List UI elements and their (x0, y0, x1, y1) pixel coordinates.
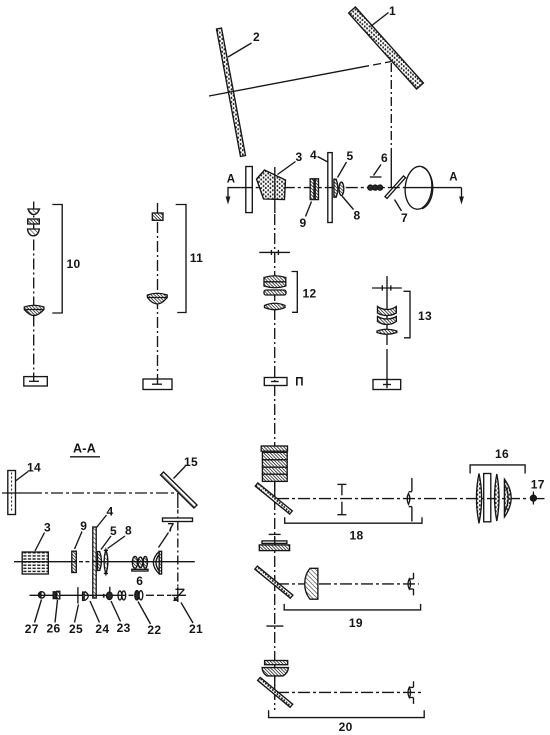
bracket 20 (269, 710, 425, 717)
axis row 20 (277, 691, 422, 693)
lens 5 A-A (98, 552, 102, 571)
plate 4 (328, 153, 332, 223)
beamsplitter 19 (255, 566, 293, 598)
svg-text:7: 7 (168, 521, 175, 535)
filter 26 (53, 591, 60, 599)
beamsplitter 18 (255, 483, 292, 514)
label 22 (138, 602, 161, 638)
stop 23a (103, 594, 105, 598)
label 25 (69, 605, 83, 637)
svg-text:4: 4 (310, 148, 317, 162)
svg-text:17: 17 (531, 478, 545, 492)
lens 24 (83, 592, 89, 601)
svg-text:26: 26 (47, 622, 61, 636)
axis of assembly 11 (157, 203, 159, 384)
svg-text:14: 14 (27, 461, 41, 475)
main horizontal optical axis (241, 187, 462, 189)
label 9 A-A (75, 519, 88, 549)
bracket 10 (52, 205, 62, 314)
filter 9 (310, 179, 318, 200)
reticle 25 (77, 587, 79, 603)
label П (295, 377, 304, 389)
lens 8 A-A (104, 550, 108, 575)
label 18 (350, 529, 364, 543)
label 6 A-A (136, 574, 143, 588)
svg-text:6: 6 (136, 574, 143, 588)
label 27 (25, 600, 42, 637)
label 13 (418, 309, 432, 323)
svg-text:6: 6 (381, 151, 388, 165)
svg-text:5: 5 (110, 524, 117, 538)
bracket 16 (470, 465, 525, 474)
label 11 (190, 251, 203, 265)
label 4 (310, 148, 328, 162)
plate 4 A-A (93, 527, 96, 598)
stage 10 (24, 377, 48, 386)
lens 16d (505, 479, 512, 517)
label 2 (228, 30, 260, 57)
label 3 (278, 150, 303, 175)
svg-text:2: 2 (253, 30, 260, 44)
axis A-A second horizontal (14, 561, 195, 563)
bracket 12 (292, 272, 298, 313)
lens 10a (28, 209, 40, 215)
protective plate left (246, 167, 253, 213)
svg-text:3: 3 (44, 521, 51, 535)
svg-text:24: 24 (95, 622, 109, 636)
beamsplitter 20 (258, 677, 293, 707)
vertical axis from mirror 15 (177, 493, 179, 602)
mirror 7 (385, 176, 406, 199)
lamp bulb (403, 165, 433, 210)
eyepiece lens row 18 (407, 478, 412, 522)
exit pupil 17 (530, 492, 536, 505)
diaphragm mark above group 12 (259, 250, 290, 255)
diaphragm 27 (38, 592, 44, 598)
lens stack 20 (262, 661, 288, 676)
lens 7 A-A (153, 551, 161, 574)
svg-text:22: 22 (147, 623, 161, 637)
svg-text:7: 7 (401, 211, 408, 225)
bracket 18 (285, 517, 422, 523)
aperture stop row 18 (337, 484, 346, 514)
svg-text:4: 4 (107, 505, 114, 519)
lens 5 (334, 179, 338, 197)
mount 16b (484, 474, 491, 522)
lamp filament 6 (368, 185, 383, 190)
label A-A (70, 442, 100, 457)
axis row 18 (277, 498, 545, 500)
label 6 (370, 151, 388, 177)
svg-text:13: 13 (418, 309, 432, 323)
label 10 (67, 257, 81, 271)
lens 12a (264, 276, 286, 288)
svg-text:10: 10 (67, 257, 81, 271)
vertical axis mirror 1 to mirror 7 (390, 63, 392, 188)
label 16 (495, 447, 509, 461)
lens pair 23b (118, 591, 126, 600)
doublet 10d (24, 305, 44, 315)
svg-text:A-A: A-A (73, 442, 96, 456)
svg-text:11: 11 (190, 251, 203, 265)
eyepiece lens row 20 (408, 681, 414, 704)
label 14 (16, 461, 41, 482)
mirror 21 (174, 589, 185, 601)
svg-text:16: 16 (495, 447, 509, 461)
lens 13b (377, 329, 397, 334)
svg-text:П: П (295, 377, 304, 389)
mirror plate on vertical axis (163, 518, 193, 522)
svg-text:27: 27 (25, 622, 39, 636)
label 8 A-A (108, 524, 133, 549)
svg-text:5: 5 (347, 149, 354, 163)
prism 3 (257, 167, 286, 213)
filter 11a (152, 213, 163, 220)
svg-text:19: 19 (349, 616, 363, 630)
mirror 2 (217, 28, 246, 157)
lens 16a (476, 474, 481, 524)
axis A-A horizontal (2, 492, 176, 494)
lens 23 (107, 587, 113, 600)
label 17 (531, 478, 545, 492)
filter 9 A-A (72, 551, 77, 572)
label 7 A-A (159, 521, 175, 548)
label 9 (300, 202, 312, 231)
field stop box (264, 378, 287, 386)
axis row 19 (277, 583, 419, 585)
axis of assembly 13 (386, 276, 388, 385)
stage 13 (373, 380, 401, 390)
label 12 (303, 287, 317, 301)
bracket 13 (404, 291, 411, 338)
label 8 (342, 196, 361, 223)
label 7 (395, 200, 409, 226)
lens 16c (495, 474, 500, 521)
central vertical optical axis (274, 214, 276, 710)
label 3 A-A (35, 521, 51, 552)
svg-text:12: 12 (303, 287, 317, 301)
svg-text:8: 8 (125, 524, 132, 538)
lens 12c (265, 303, 286, 309)
lens 22 (135, 591, 143, 600)
plate 14 (8, 471, 16, 515)
svg-text:A: A (227, 174, 236, 186)
svg-text:18: 18 (350, 529, 364, 543)
label 24 (90, 601, 109, 636)
tick on vertical axis below BS 19 (266, 625, 283, 627)
lens 19 (305, 568, 318, 599)
svg-text:23: 23 (117, 621, 131, 635)
label 23 (111, 601, 131, 635)
lens 12b (264, 290, 286, 295)
section marker A left (226, 174, 241, 205)
bracket 11 (176, 205, 186, 313)
lower A-A optical axis (30, 594, 187, 596)
label 5 A-A (101, 524, 117, 550)
lens 13a (378, 307, 397, 325)
label 21 (181, 603, 203, 637)
label 26 (47, 600, 61, 636)
svg-text:25: 25 (69, 622, 83, 636)
label 15 (174, 455, 198, 479)
relay lens stack (261, 446, 287, 481)
bracket 19 (284, 604, 420, 610)
label 4 A-A (97, 505, 114, 528)
label 5 (338, 149, 354, 178)
field lens plate (259, 541, 289, 551)
svg-text:1: 1 (389, 4, 396, 18)
label 19 (349, 616, 363, 630)
svg-text:15: 15 (184, 455, 198, 469)
lens 10c (28, 229, 40, 236)
mirror 15 (161, 472, 198, 508)
doublet 11b (147, 293, 167, 304)
label 1 (371, 4, 397, 27)
lens 10b (28, 219, 40, 224)
diaphragm mark above group 13 (372, 285, 402, 290)
condenser 6 A-A (132, 556, 148, 571)
mirror 1 (349, 7, 424, 89)
svg-text:20: 20 (339, 720, 353, 734)
svg-text:9: 9 (80, 519, 87, 533)
svg-text:8: 8 (354, 209, 361, 223)
svg-text:3: 3 (296, 150, 303, 164)
eyepiece lens row 19 (408, 573, 414, 596)
label 20 (339, 720, 353, 734)
stage 11 (143, 379, 172, 390)
axis of assembly 10 (33, 202, 35, 382)
tick on vertical axis below BS 18 (269, 533, 281, 535)
svg-text:21: 21 (189, 622, 203, 636)
lens 8 (339, 182, 344, 195)
svg-text:9: 9 (300, 216, 307, 230)
section marker A right (449, 172, 464, 205)
svg-text:A: A (449, 172, 458, 184)
ray from mirror 2 to mirror 1 (209, 62, 391, 97)
source box 3 (22, 552, 48, 574)
